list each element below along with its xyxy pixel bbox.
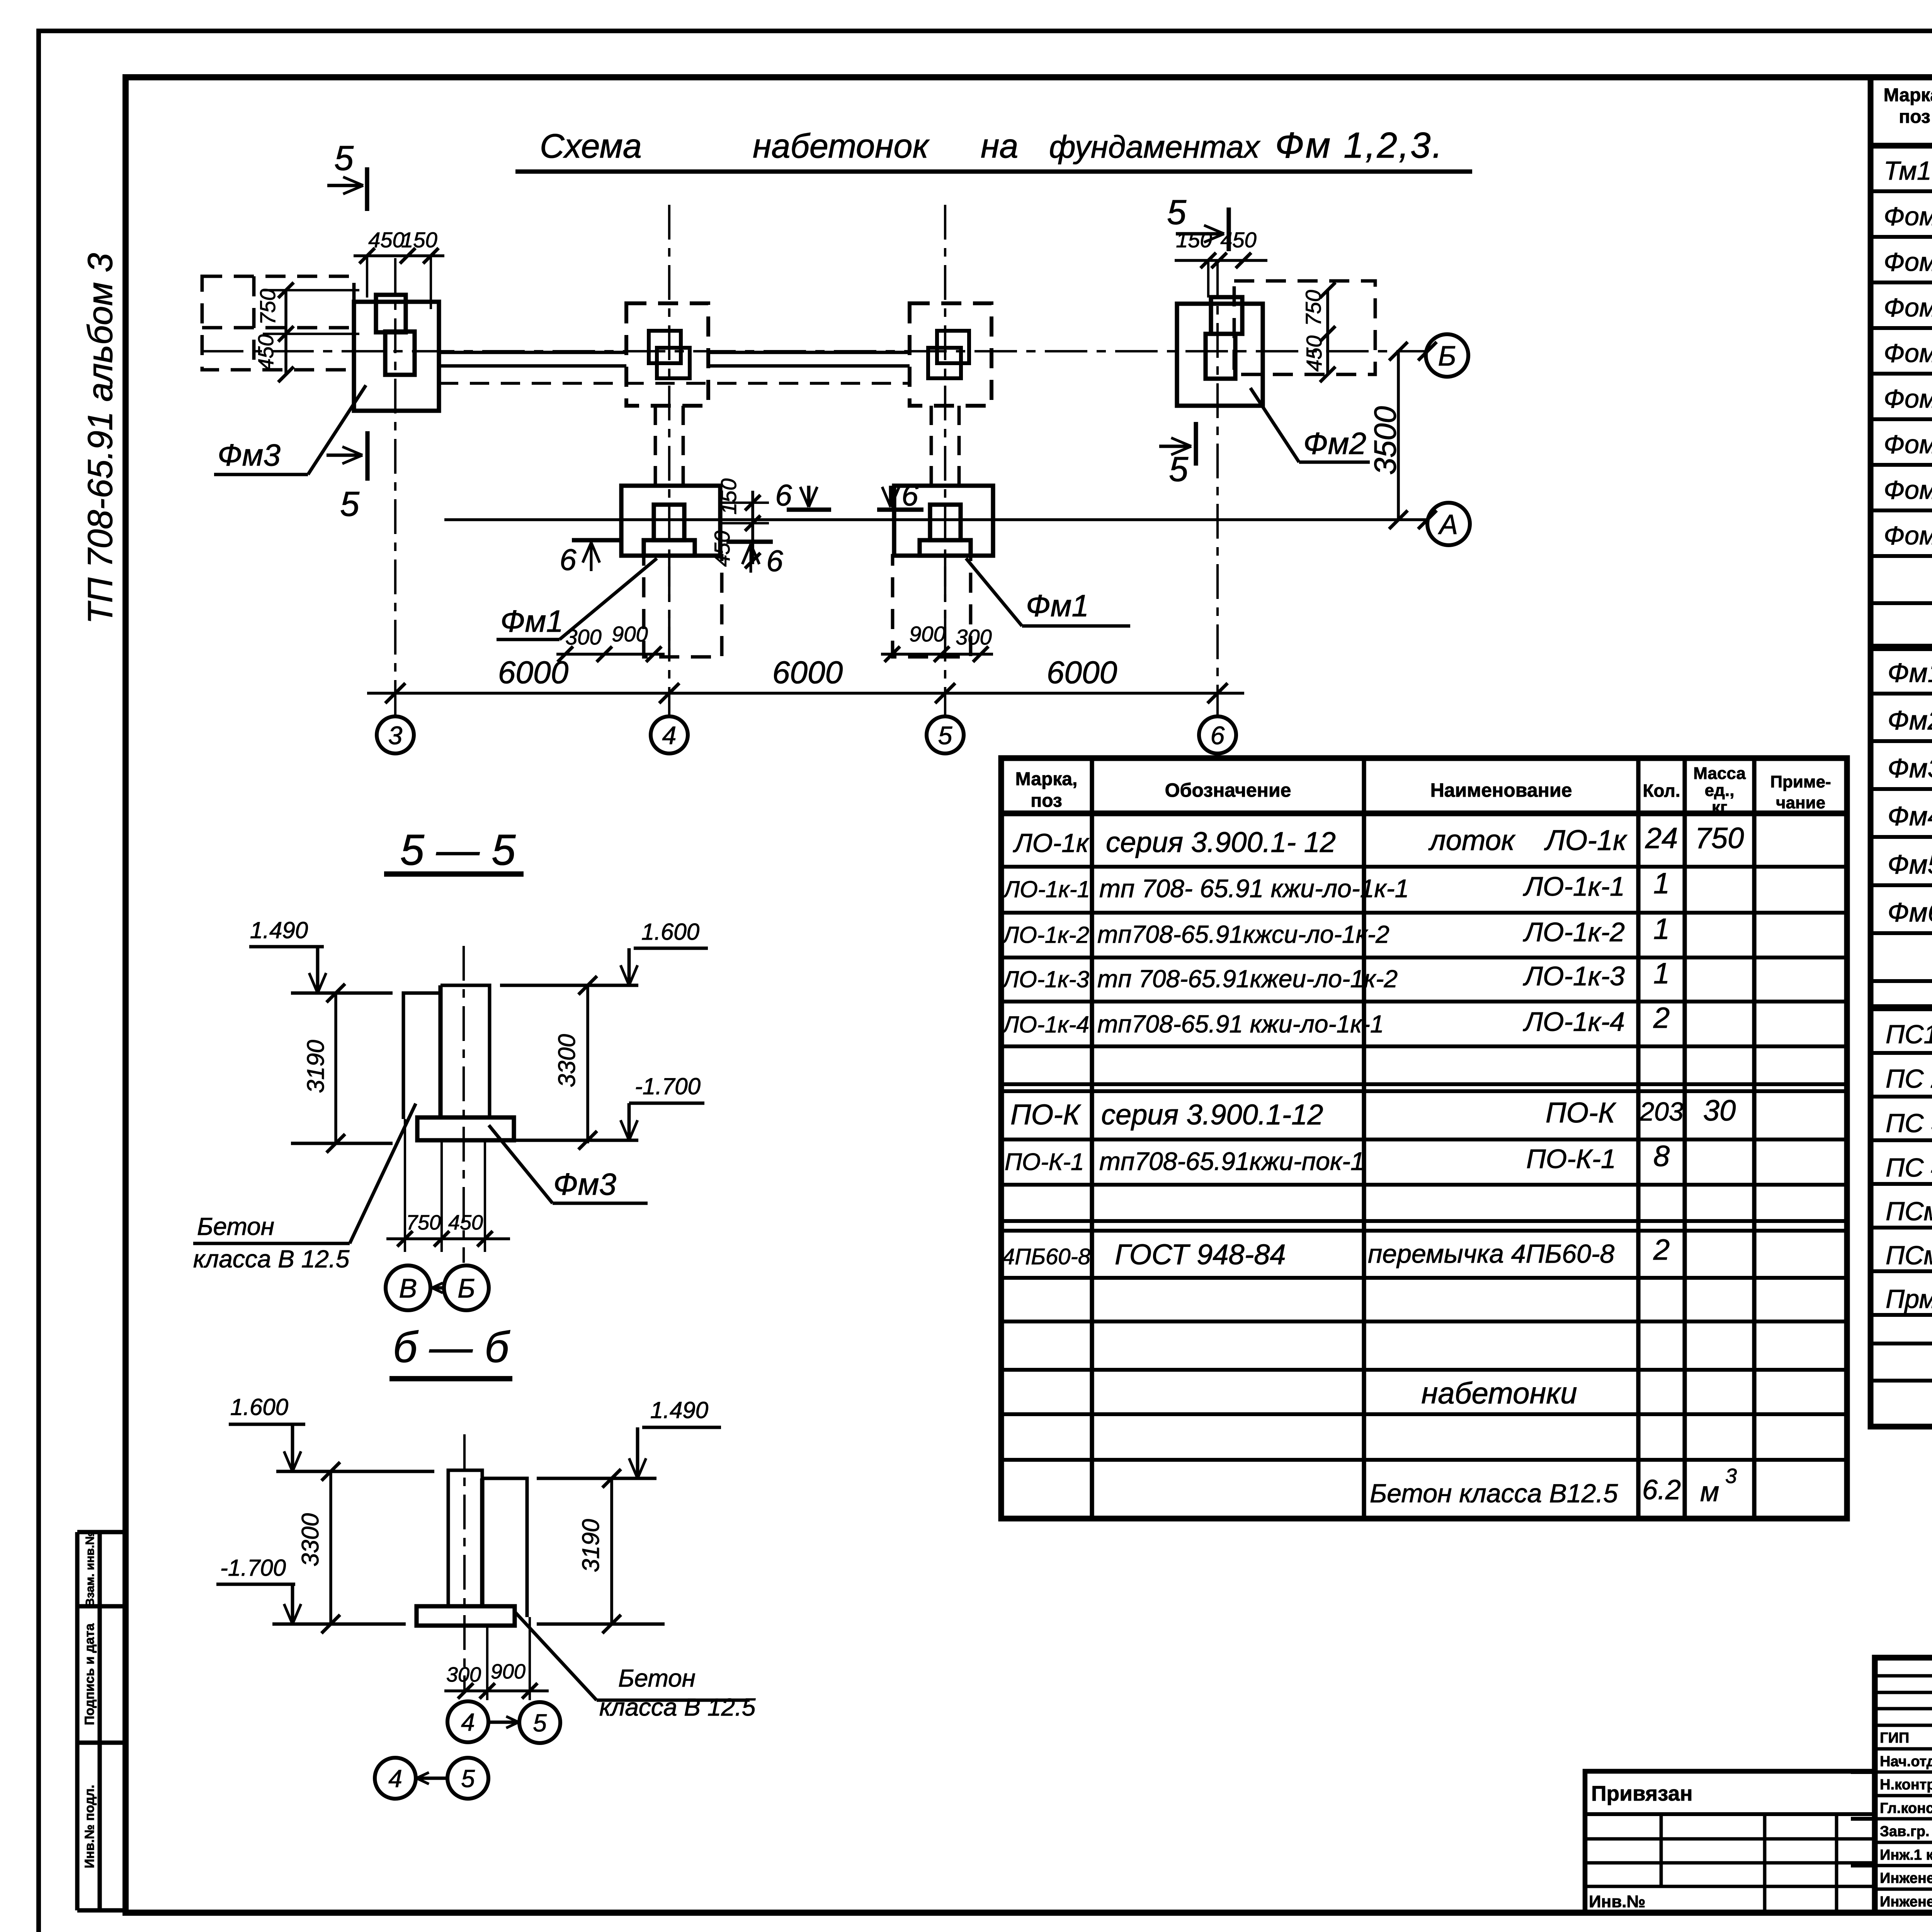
dim 3190 left [334,993,337,1143]
svg-text:Б: Б [1438,341,1456,372]
svg-text:класса В 12.5: класса В 12.5 [599,1693,756,1721]
svg-text:Обозначение: Обозначение [1165,779,1291,801]
svg-text:ПС1: ПС1 [1886,1020,1932,1049]
svg-text:4: 4 [388,1765,402,1793]
svg-text:900: 900 [491,1660,526,1683]
svg-text:Подпись и дата: Подпись и дата [82,1623,97,1725]
svg-text:1.490: 1.490 [250,917,308,943]
svg-text:1: 1 [1653,957,1670,990]
foundation Fm1 at column 4 axis A [621,486,720,556]
svg-text:ПС 2: ПС 2 [1886,1064,1932,1094]
right specification table [1871,77,1932,1427]
section 6-6 column [448,1470,527,1617]
dashed connector column 4 between axes [654,406,657,486]
svg-text:450: 450 [253,334,278,370]
svg-text:Бетон: Бетон [618,1664,696,1692]
svg-text:8: 8 [1653,1140,1670,1173]
svg-text:Схема: Схема [540,127,642,165]
axis bubble A [1427,503,1470,545]
foundation Fm2 at column 6 [1177,304,1263,406]
svg-text:серия 3.900.1-12: серия 3.900.1-12 [1101,1099,1323,1131]
svg-text:30: 30 [1703,1094,1736,1127]
svg-text:Фом6: Фом6 [1884,430,1932,459]
svg-text:Фм2: Фм2 [1303,426,1366,461]
svg-text:750: 750 [255,289,280,325]
section 6-6 footing [417,1606,515,1626]
svg-text:ЛО-1к-1: ЛО-1к-1 [1002,876,1090,902]
svg-text:Фом 4: Фом 4 [1884,338,1932,368]
section marker 6 upper-right [877,507,923,512]
svg-text:1: 1 [1653,867,1670,900]
section marker 5 bottom at column 3 [327,454,362,457]
svg-text:203: 203 [1639,1097,1684,1126]
svg-text:150: 150 [716,478,741,514]
section 5-5 column [403,985,490,1119]
svg-text:3190: 3190 [578,1519,604,1572]
svg-text:3: 3 [388,721,403,750]
grid bubble 5 [927,716,964,753]
svg-text:Фом5: Фом5 [1884,384,1932,413]
svg-text:900: 900 [612,622,648,646]
dim 3190 right [610,1478,613,1624]
svg-text:Бетон: Бетон [197,1213,274,1240]
svg-text:ПО-К-1: ПО-К-1 [1005,1149,1084,1175]
svg-text:5: 5 [334,139,354,178]
column centerline 4 [668,205,670,716]
svg-text:Инв.№: Инв.№ [1589,1892,1646,1911]
svg-text:Фом 2: Фом 2 [1884,247,1932,277]
svg-text:фундаментах: фундаментах [1049,129,1261,165]
svg-text:1: 1 [1653,913,1670,946]
svg-text:ЛО-1к-1: ЛО-1к-1 [1523,871,1625,901]
svg-text:Фм 1,2,3.: Фм 1,2,3. [1275,125,1444,165]
svg-text:3300: 3300 [554,1034,580,1087]
dim 3300 left [329,1471,332,1624]
svg-text:ЛО-1к-3: ЛО-1к-3 [1002,966,1089,992]
svg-text:м: м [1700,1476,1719,1507]
section marker 6 lower-right [750,544,752,573]
axis bubbles V and B with arrow [386,1265,430,1310]
svg-text:Гл.констр.: Гл.констр. [1880,1800,1932,1816]
svg-text:300: 300 [956,625,992,649]
privyazan block [1585,1771,1875,1913]
dashed pit below column 5 [893,556,971,657]
svg-text:Н.контр.: Н.контр. [1880,1777,1932,1793]
svg-text:Взам. инв.№: Взам. инв.№ [83,1532,97,1607]
bubbles 4-5 lower [375,1758,416,1799]
svg-text:450: 450 [710,531,734,566]
svg-text:поз: поз [1031,791,1062,811]
left stubs at signature rows [1851,1770,1875,1774]
svg-text:4: 4 [662,721,677,750]
svg-text:6: 6 [560,543,577,577]
svg-text:1.600: 1.600 [230,1394,288,1420]
section 5-5 footing [417,1117,514,1140]
svg-text:Фм3: Фм3 [218,438,281,472]
axis bubble B [1426,334,1468,377]
svg-text:Бетон класса В12.5: Бетон класса В12.5 [1370,1479,1618,1508]
svg-text:Тм1: Тм1 [1884,156,1932,185]
grid bubble 4 [651,716,688,753]
dim 300 900 bottom [486,1626,488,1700]
svg-text:5: 5 [533,1709,547,1737]
svg-text:Инж.1 кат: Инж.1 кат [1880,1847,1932,1863]
svg-text:Наименование: Наименование [1430,779,1572,801]
svg-text:ПС 3: ПС 3 [1886,1109,1932,1138]
foundation (dashed) at column 4 axis B [626,303,708,406]
svg-text:ПСм1: ПСм1 [1886,1197,1932,1226]
title block outer [1875,1658,1932,1913]
svg-text:Фм3: Фм3 [553,1167,616,1201]
svg-text:ЛО-1к-2: ЛО-1к-2 [1523,917,1625,947]
svg-text:6000: 6000 [1047,655,1117,690]
svg-text:Зав.гр.: Зав.гр. [1880,1823,1929,1840]
svg-text:5: 5 [340,485,360,524]
svg-text:ПО-К: ПО-К [1546,1097,1617,1129]
svg-text:ПО-К: ПО-К [1010,1099,1082,1131]
svg-text:-1.700: -1.700 [220,1555,286,1581]
svg-text:перемычка 4ПБ60-8: перемычка 4ПБ60-8 [1368,1239,1614,1269]
svg-text:тп 708- 65.91 кжи-ло-1к-1: тп 708- 65.91 кжи-ло-1к-1 [1099,874,1409,903]
foundation Fm1 at column 5 axis A [894,486,993,556]
svg-text:6: 6 [901,478,918,512]
svg-text:Фом 7: Фом 7 [1884,475,1932,505]
svg-text:Фм5: Фм5 [1888,849,1932,879]
svg-text:Б: Б [457,1273,475,1303]
svg-text:4: 4 [461,1708,475,1736]
svg-text:Марка,: Марка, [1884,85,1932,105]
bubbles 4-5 upper [447,1701,488,1742]
svg-text:ЛО-1к-4: ЛО-1к-4 [1002,1012,1089,1037]
svg-text:3190: 3190 [303,1040,329,1093]
column centerline 3 [394,258,396,716]
svg-text:В: В [399,1273,417,1303]
svg-text:Нач.отд.: Нач.отд. [1880,1753,1932,1770]
svg-text:поз: поз [1899,107,1930,127]
svg-text:Привязан: Привязан [1591,1781,1693,1805]
svg-text:Кол.: Кол. [1643,781,1680,801]
svg-text:на: на [981,127,1018,165]
svg-text:Фм1: Фм1 [500,604,563,638]
svg-text:Фм3: Фм3 [1888,753,1932,783]
svg-text:кг: кг [1712,798,1727,817]
svg-text:6000: 6000 [772,655,843,690]
svg-text:Фм4: Фм4 [1888,801,1932,831]
column centerline 6 [1216,263,1219,716]
svg-text:класса В 12.5: класса В 12.5 [193,1245,350,1273]
dim 3500 between axes [1397,351,1400,520]
svg-text:ПСм2: ПСм2 [1886,1241,1932,1270]
svg-text:6.2: 6.2 [1642,1475,1681,1505]
svg-text:3300: 3300 [297,1513,324,1566]
svg-text:Масса: Масса [1693,764,1746,783]
svg-text:5 — 5: 5 — 5 [400,826,516,874]
svg-text:Фм1: Фм1 [1026,588,1089,623]
left margin stamp boxes [77,1530,126,1534]
svg-text:тп708-65.91кжси-ло-1к-2: тп708-65.91кжси-ло-1к-2 [1097,920,1389,948]
svg-text:тп 708-65.91кжеи-ло-1к-2: тп 708-65.91кжеи-ло-1к-2 [1097,965,1398,993]
svg-text:1.490: 1.490 [650,1397,708,1423]
section 6-6 centerline [463,1434,466,1691]
dim 750 450 bottom [404,1119,406,1252]
svg-text:набетонок: набетонок [753,127,930,165]
svg-text:6: 6 [775,478,792,512]
svg-text:ЛО-1к-3: ЛО-1к-3 [1523,961,1625,991]
axis B line [201,350,1426,352]
svg-text:б — б: б — б [393,1323,510,1371]
foundation (dashed) at column 5 axis B [910,303,992,406]
svg-text:-1.700: -1.700 [635,1073,701,1099]
svg-text:набетонки: набетонки [1421,1376,1577,1410]
svg-text:Инженер: Инженер [1880,1894,1932,1910]
svg-text:чание: чание [1776,793,1825,812]
svg-text:Фом3: Фом3 [1884,293,1932,322]
svg-text:Фом8: Фом8 [1884,521,1932,550]
grid bubble 3 [377,716,414,753]
svg-text:1.600: 1.600 [641,919,699,945]
svg-text:5: 5 [938,721,952,750]
dashed pit below column 4 [644,556,722,657]
svg-text:3: 3 [1725,1464,1737,1488]
svg-text:24: 24 [1645,822,1678,855]
svg-text:Приме-: Приме- [1770,772,1831,791]
svg-text:5: 5 [1167,193,1187,232]
svg-text:6: 6 [766,544,783,578]
svg-text:ЛО-1к: ЛО-1к [1544,824,1628,856]
svg-text:5: 5 [1169,450,1189,489]
grid bubble 6 [1199,716,1236,753]
svg-text:2: 2 [1653,1233,1670,1266]
svg-text:Прм1: Прм1 [1886,1284,1932,1314]
dashed connector column 5 between axes [930,406,933,486]
svg-text:Фм6: Фм6 [1888,897,1932,927]
svg-text:6: 6 [1211,721,1225,750]
dim 3300 right [586,985,589,1143]
leader concrete class B12.5 [515,1612,597,1700]
dashed outline right of Fm2 [1234,281,1375,374]
dashed outline left of Fm3 [202,276,354,370]
svg-text:Марка,: Марка, [1015,769,1078,789]
column centerline 5 [944,205,946,716]
svg-text:ГОСТ 948-84: ГОСТ 948-84 [1115,1238,1286,1270]
middle specification table [1001,758,1847,1519]
section 5-5 centerline [463,946,465,1263]
svg-text:А: А [1438,509,1458,540]
svg-text:450: 450 [448,1211,483,1234]
svg-text:Инженер: Инженер [1880,1870,1932,1886]
svg-text:лоток: лоток [1428,824,1516,856]
axis A line [444,518,1427,521]
svg-text:тп708-65.91кжи-пок-1: тп708-65.91кжи-пок-1 [1099,1147,1365,1175]
svg-text:300: 300 [446,1663,481,1686]
svg-text:ЛО-1к-2: ЛО-1к-2 [1002,922,1089,948]
svg-text:тп708-65.91 кжи-ло-1к-1: тп708-65.91 кжи-ло-1к-1 [1097,1010,1384,1038]
svg-text:5: 5 [461,1765,475,1793]
bottom dimension line 6000x3 [367,692,1244,695]
svg-text:3500: 3500 [1368,406,1402,475]
svg-text:ПС 4: ПС 4 [1886,1153,1932,1182]
svg-text:4ПБ60-8: 4ПБ60-8 [1002,1244,1090,1269]
svg-text:750: 750 [406,1211,441,1234]
svg-text:750: 750 [1695,822,1744,855]
svg-text:ТП 708-65.91 альбом 3: ТП 708-65.91 альбом 3 [81,253,120,624]
svg-text:ЛО-1к: ЛО-1к [1013,828,1090,858]
svg-text:Фом1: Фом1 [1884,202,1932,231]
svg-text:Инв.№ подл.: Инв.№ подл. [82,1785,97,1868]
section marker 5 bottom at column 6 [1159,445,1191,448]
svg-text:Фм2: Фм2 [1888,705,1932,735]
svg-text:150: 150 [401,228,437,252]
svg-text:ЛО-1к-4: ЛО-1к-4 [1523,1007,1625,1037]
svg-text:900: 900 [909,622,945,646]
svg-text:450: 450 [1220,228,1256,252]
corridor lines along axis B [439,351,626,354]
svg-text:Фм1: Фм1 [1888,658,1932,688]
svg-text:2: 2 [1653,1002,1670,1034]
svg-text:ПО-К-1: ПО-К-1 [1526,1144,1616,1174]
svg-text:ед.,: ед., [1705,781,1735,800]
svg-text:серия 3.900.1- 12: серия 3.900.1- 12 [1106,826,1336,858]
svg-text:ГИП: ГИП [1880,1730,1909,1746]
foundation Fm3 at column 3 [354,302,439,411]
